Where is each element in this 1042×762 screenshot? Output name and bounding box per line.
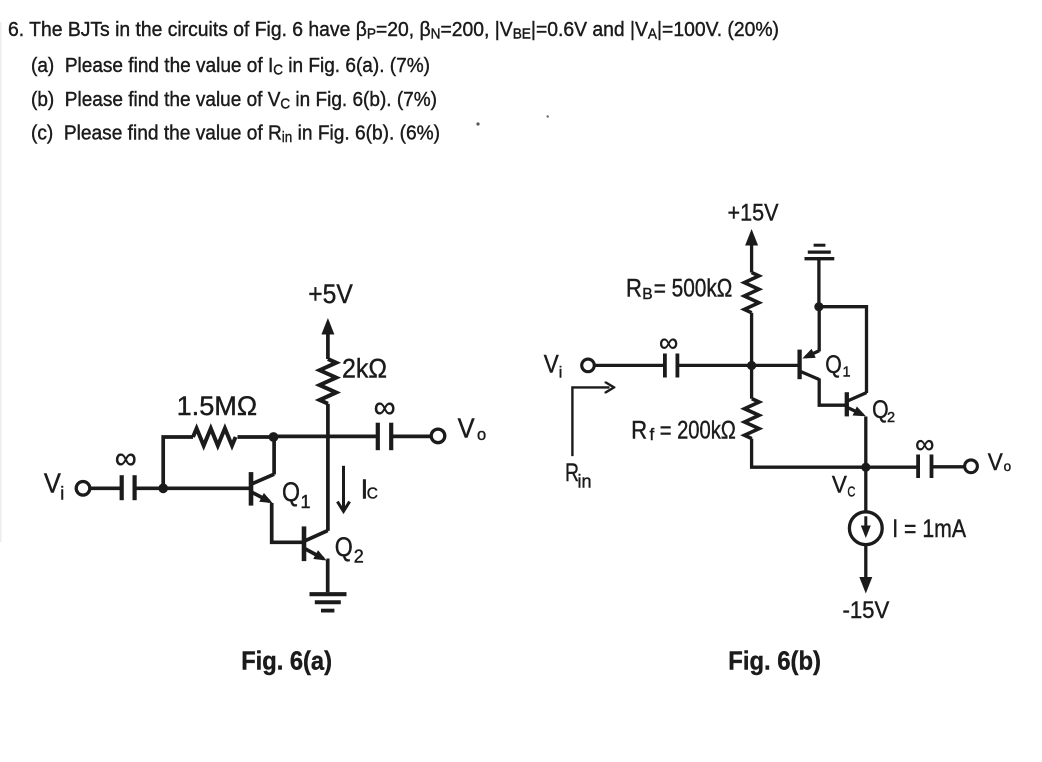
- speck artifact 2: [547, 115, 549, 117]
- node dot: ground node (Fig 6b): [814, 302, 823, 311]
- wire: ground node right and down to Q2 collector (Fig 6b): [819, 307, 867, 393]
- ground symbol inverted (Fig 6b): [805, 257, 835, 260]
- svg-text:i: i: [60, 484, 64, 504]
- transistor Q1 base bar (Fig 6a): [249, 472, 254, 506]
- resistor 2k&#937; (Fig 6a): [320, 359, 337, 404]
- transistor Q2 base bar (Fig 6a): [302, 526, 307, 561]
- svg-text:V: V: [544, 351, 559, 379]
- output terminal circle Vo (Fig 6b): [965, 460, 978, 473]
- ground symbol (Fig 6a): [310, 592, 347, 596]
- svg-text:1.5MΩ: 1.5MΩ: [177, 391, 258, 421]
- svg-text:Q: Q: [825, 351, 842, 379]
- svg-text:V: V: [832, 471, 848, 498]
- svg-text:Q: Q: [282, 477, 300, 507]
- svg-text:Fig. 6(a): Fig. 6(a): [241, 646, 332, 676]
- transistor Q2 collector (Fig 6b): [848, 393, 867, 401]
- wire: ground node up to ground symbol (Fig 6b): [817, 260, 820, 307]
- input terminal circle Vi (Fig 6b): [582, 359, 595, 372]
- svg-text:(a) Please find the value of: (a) Please find the value of IC in Fig. …: [31, 54, 430, 79]
- capacitor input &#8734; (Fig 6a): [120, 475, 124, 500]
- svg-text:(b) Please find the value of: (b) Please find the value of VC in Fig. …: [31, 88, 437, 113]
- svg-text:2kΩ: 2kΩ: [342, 354, 387, 384]
- svg-text:= 200kΩ: = 200kΩ: [660, 417, 736, 445]
- svg-text:o: o: [477, 426, 486, 444]
- node dot: input/feedback junction (Fig 6a): [158, 483, 168, 493]
- transistor Q1 emitter with PNP arrow (Fig 6b): [806, 351, 820, 357]
- svg-text:+5V: +5V: [308, 279, 353, 309]
- svg-text:∞: ∞: [115, 440, 137, 475]
- svg-text:V: V: [458, 412, 475, 443]
- wire: main horizontal node to output cap (Fig 6a): [272, 435, 377, 439]
- capacitor input &#8734; (Fig 6b): [663, 354, 667, 378]
- current source I circle (Fig 6b): [849, 512, 882, 545]
- transistor Q2 emitter with arrow (Fig 6a): [305, 549, 324, 559]
- wire: Q2 emitter down to VC node (Fig 6b): [864, 417, 867, 468]
- transistor Q1 collector (Fig 6a): [252, 474, 274, 484]
- wire: VC node to output cap (Fig 6b): [866, 466, 918, 469]
- svg-text:∞: ∞: [659, 328, 678, 358]
- wire: current source to -15V arrow (Fig 6b): [864, 545, 867, 589]
- speck artifact 1: [476, 122, 479, 125]
- transistor Q2 emitter with arrow (Fig 6b): [848, 408, 863, 415]
- svg-text:i: i: [559, 364, 563, 381]
- transistor Q2 collector (Fig 6a): [305, 531, 328, 541]
- svg-text:B: B: [642, 286, 652, 303]
- svg-text:Fig. 6(b): Fig. 6(b): [728, 645, 821, 675]
- node dot: VC node (Fig 6b): [861, 463, 870, 472]
- wire: output cap to Vo terminal (Fig 6b): [932, 465, 965, 468]
- wire: 1.5M to node (Fig 6a): [238, 435, 273, 439]
- wire: Vi terminal to input cap (Fig 6b): [594, 364, 664, 367]
- input terminal circle Vi (Fig 6a): [76, 482, 90, 496]
- svg-text:R: R: [631, 417, 647, 445]
- resistor Rf 200k&#937; (Fig 6b): [745, 399, 760, 439]
- node dot: feedback/collector node (Fig 6a): [269, 432, 279, 442]
- wire: Q1 emitter to Q2 base (Fig 6a): [272, 503, 302, 542]
- svg-text:in: in: [578, 472, 592, 492]
- wire: Q1 collector down to Q2 base (Fig 6b): [819, 379, 845, 406]
- wire: Q2 emitter to ground (Fig 6a): [326, 560, 327, 592]
- transistor Q2 base bar (Fig 6b): [845, 392, 849, 416]
- capacitor output &#8734; (Fig 6a): [376, 423, 380, 451]
- wire: VC node down to current source (Fig 6b): [864, 467, 867, 512]
- svg-text:(c) Please find the value of: (c) Please find the value of Rin in Fig.…: [31, 122, 440, 147]
- resistor 1.5M&#937; (Fig 6a): [193, 428, 236, 445]
- wire: input cap to Q1 base (Fig 6b): [677, 364, 797, 367]
- node dot: input node (Fig 6b): [747, 361, 756, 370]
- svg-text:2: 2: [354, 547, 364, 567]
- resistor RB 500k&#937; (Fig 6b): [744, 273, 759, 313]
- svg-text:1: 1: [843, 365, 851, 381]
- svg-text:∞: ∞: [374, 389, 396, 424]
- Rin measurement arrow (Fig 6b): [572, 387, 609, 456]
- supply arrow +5V: [326, 323, 330, 360]
- svg-text:+15V: +15V: [728, 200, 779, 227]
- current source arrow (Fig 6b): [864, 516, 867, 534]
- wire: Vi terminal to input cap (Fig 6a): [90, 486, 121, 490]
- svg-text:V: V: [988, 449, 1004, 476]
- wire: Q1 collector vertical (Fig 6a): [272, 437, 276, 475]
- scan artifact: left edge strip: [0, 22, 2, 542]
- svg-text:I = 1mA: I = 1mA: [892, 515, 966, 543]
- capacitor output &#8734; (Fig 6b): [916, 455, 920, 479]
- svg-text:C: C: [367, 486, 378, 503]
- svg-text:o: o: [1004, 459, 1012, 474]
- svg-text:6. The BJTs in the circuits of: 6. The BJTs in the circuits of Fig. 6 ha…: [8, 18, 779, 43]
- svg-text:C: C: [847, 483, 855, 500]
- transistor Q1 collector (Fig 6b): [801, 372, 820, 380]
- wire: Rf to VC node (Fig 6b): [752, 439, 866, 468]
- wire: 2k resistor down through Vo node to Q2 collector: [326, 404, 330, 531]
- wire: input cap to Q1 base (Fig 6a): [135, 486, 250, 490]
- output terminal circle Vo (Fig 6a): [431, 429, 445, 443]
- svg-text:1: 1: [301, 492, 311, 512]
- wire: Q1 emitter up to ground dot (Fig 6b): [818, 307, 821, 352]
- svg-text:f: f: [650, 425, 655, 444]
- svg-text:-15V: -15V: [842, 597, 889, 624]
- supply arrow +15V: [750, 234, 753, 273]
- transistor Q1 emitter with arrow (Fig 6a): [252, 492, 270, 501]
- transistor Q1 base bar (Fig 6b): [797, 350, 801, 380]
- current arrow IC (Fig 6a): [342, 466, 345, 510]
- svg-text:∞: ∞: [915, 429, 934, 459]
- wire: output cap to Vo terminal (Fig 6a): [391, 435, 431, 439]
- wire: feedback left corner (Fig 6a): [163, 437, 193, 488]
- wire: RB down through input node to Rf (Fig 6b): [750, 313, 753, 399]
- svg-text:2: 2: [887, 410, 895, 426]
- svg-text:= 500kΩ: = 500kΩ: [654, 274, 733, 302]
- svg-text:R: R: [626, 274, 642, 302]
- svg-text:Q: Q: [335, 532, 353, 562]
- svg-text:V: V: [44, 467, 61, 498]
